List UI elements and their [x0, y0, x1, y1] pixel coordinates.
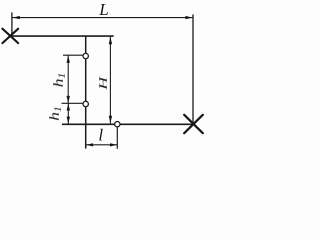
arrowhead h1 lower bottom — [67, 117, 70, 124]
dimension line L — [13, 17, 193, 19]
insulator node lower — [83, 101, 88, 106]
arrowhead H bottom — [109, 116, 112, 124]
top span wire — [11, 35, 114, 37]
extension line left — [11, 12, 13, 36]
arrowhead l left — [86, 143, 93, 146]
label h1 lower — [48, 106, 64, 121]
dimension line l — [86, 144, 117, 146]
arrowhead h1 upper top — [67, 56, 70, 63]
insulator node upper — [83, 53, 88, 58]
tick at lower node — [62, 102, 83, 104]
support mark right X — [184, 115, 203, 133]
extension line below node — [116, 127, 118, 149]
svg-text:l: l — [98, 126, 103, 145]
dimension line H — [109, 37, 111, 124]
arrowhead h1 lower top — [67, 104, 70, 111]
svg-text:H: H — [97, 75, 110, 90]
node on bottom wire — [115, 122, 120, 127]
arrowhead L right — [185, 16, 192, 19]
downlead wire — [85, 36, 87, 149]
arrowhead L left — [13, 16, 20, 19]
arrowhead H top — [109, 37, 112, 45]
label H — [97, 75, 110, 90]
tick at upper node — [63, 54, 83, 56]
right mast extension line — [192, 14, 194, 124]
svg-text:L: L — [98, 0, 108, 19]
label h1 upper — [52, 73, 68, 88]
arrowhead h1 upper bottom — [67, 96, 70, 103]
arrowhead l right — [110, 143, 117, 146]
dimension line h1 upper — [67, 56, 69, 104]
dimension line h1 lower — [67, 104, 69, 124]
bottom wire — [62, 123, 193, 125]
support mark left X — [2, 29, 18, 43]
